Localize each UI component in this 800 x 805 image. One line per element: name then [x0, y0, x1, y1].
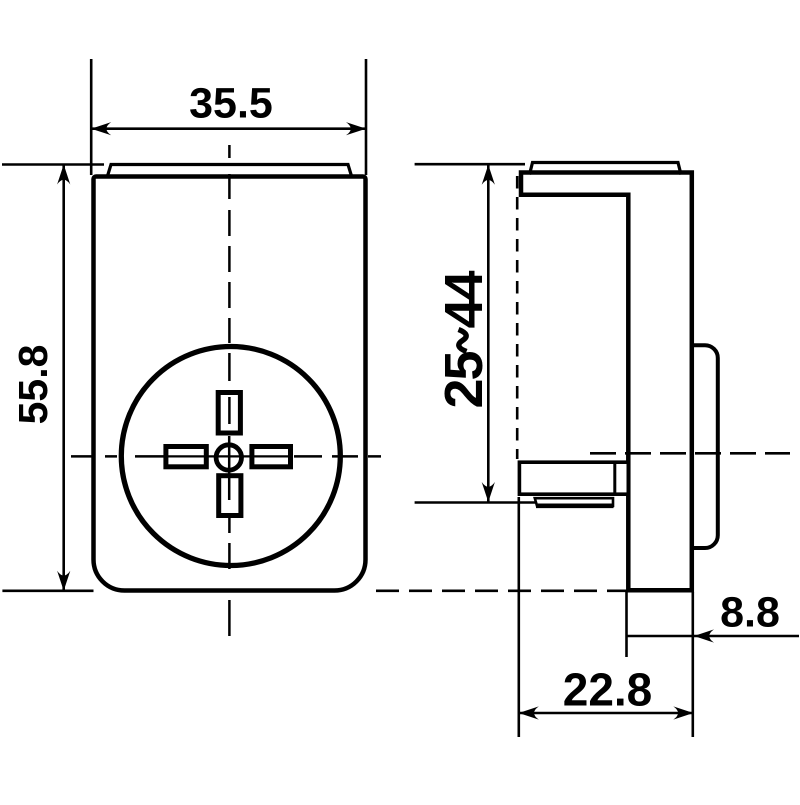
- slot centerline dash (top slot): [228, 397, 231, 424]
- dimension 55.8 extension lines: [2, 163, 104, 166]
- dashed bottom line between views: [376, 589, 627, 592]
- side view body outline: [521, 173, 692, 591]
- svg-text:22.8: 22.8: [563, 664, 653, 716]
- bottom slot: [219, 476, 241, 516]
- svg-text:25: 25: [434, 352, 494, 409]
- arrow up (25~44): [482, 165, 495, 185]
- right slot: [252, 447, 291, 467]
- arrow up (55.8): [57, 165, 70, 185]
- side view top lip: [530, 163, 682, 175]
- jaw inner vertical line: [613, 462, 616, 494]
- front view body outline: [94, 177, 366, 591]
- arrow right (22.8): [673, 706, 693, 719]
- dimension 25~44 extension lines: [415, 163, 525, 166]
- dimension text 25~44: [434, 271, 494, 409]
- svg-text:8.8: 8.8: [720, 589, 780, 637]
- horizontal centerline (side view): [590, 452, 790, 455]
- dimension text 55.8: [10, 345, 56, 425]
- dimension 22.8 extension lines: [517, 497, 520, 737]
- vertical centerline (front view): [228, 145, 231, 636]
- dimension 55.8 line: [62, 165, 65, 591]
- arrow left (8.8): [694, 629, 714, 642]
- side view right bump: [692, 345, 718, 548]
- dimension 8.8 extension lines: [625, 592, 628, 657]
- front view large circle: [121, 347, 340, 566]
- side view jaw: [519, 462, 628, 494]
- arrow down (25~44): [482, 482, 495, 502]
- top slot: [218, 393, 240, 434]
- dimension 35.5 extension lines: [90, 59, 93, 175]
- centerline through center circle (vertical): [228, 436, 231, 500]
- front view top lip: [108, 165, 352, 177]
- horizontal centerline (front view): [71, 455, 381, 458]
- dimension 22.8 line: [519, 712, 694, 715]
- dimension 25~44 line: [487, 164, 490, 502]
- arrow left (35.5): [91, 122, 111, 135]
- arrow right (35.5): [346, 122, 366, 135]
- arrow left (22.8): [519, 706, 539, 719]
- centerline through center circle (horizontal): [168, 455, 290, 457]
- left slot: [166, 447, 206, 467]
- jaw pad: [535, 498, 613, 506]
- svg-text:55.8: 55.8: [10, 345, 56, 425]
- dimension 35.5 line: [91, 127, 366, 130]
- svg-text:44: 44: [434, 271, 494, 329]
- arrow down (55.8): [57, 571, 70, 591]
- center small circle: [216, 445, 241, 470]
- dimension 8.8 line: [627, 635, 800, 638]
- svg-text:35.5: 35.5: [189, 80, 273, 128]
- dashed hidden line (side view, left): [516, 176, 519, 459]
